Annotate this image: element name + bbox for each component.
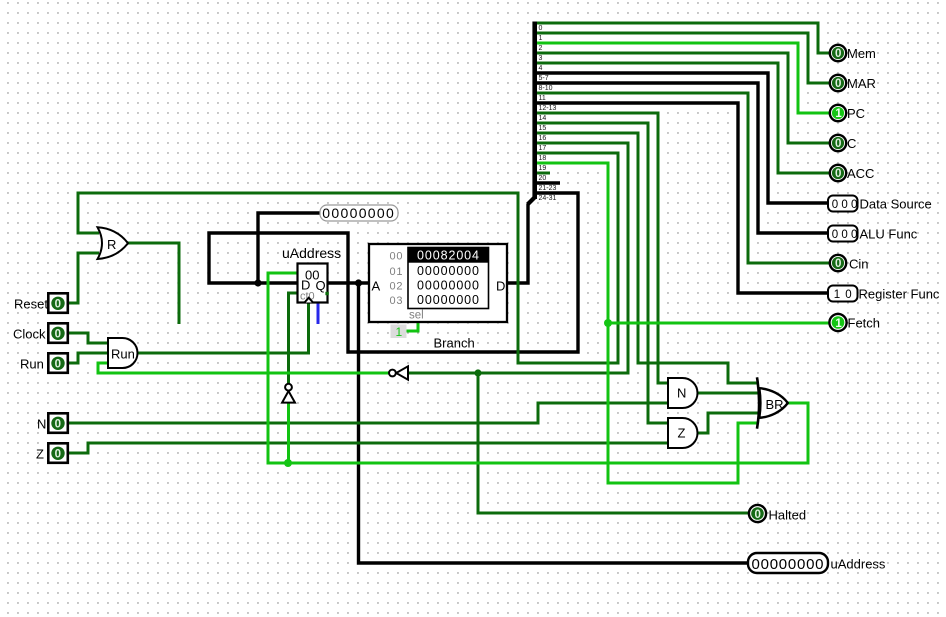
and-gate Run (clock gating)	[108, 338, 138, 368]
label Mem	[847, 46, 876, 61]
svg-text:R: R	[107, 237, 116, 252]
svg-text:sel: sel	[409, 310, 424, 322]
svg-text:0: 0	[55, 359, 61, 371]
svg-text:00000000: 00000000	[417, 278, 479, 292]
input pin Z	[48, 443, 68, 463]
label Data Source	[860, 197, 932, 212]
wire bus bits8-10 to ALU Func	[535, 83, 828, 233]
register label uAddress	[282, 245, 341, 261]
svg-text:A: A	[372, 279, 381, 294]
output LED Halted	[749, 505, 766, 522]
wire bit15 to gate Z top input	[535, 123, 668, 423]
svg-text:20: 20	[539, 175, 547, 182]
svg-text:uAddress: uAddress	[282, 245, 341, 261]
wire bus bits12-13 to Register Func	[535, 103, 828, 293]
svg-text:Branch: Branch	[434, 336, 475, 351]
svg-text:4: 4	[539, 65, 543, 72]
svg-text:Reset: Reset	[14, 297, 48, 312]
svg-text:0: 0	[835, 48, 841, 60]
svg-text:0: 0	[835, 168, 841, 180]
svg-text:Cin: Cin	[849, 257, 869, 272]
ROM address labels	[390, 251, 403, 307]
wire constant 1 to ROM sel	[404, 322, 418, 331]
svg-text:Q: Q	[316, 278, 326, 293]
output LED ACC	[830, 165, 846, 181]
svg-text:D: D	[496, 279, 505, 294]
svg-text:5-7: 5-7	[539, 75, 549, 82]
splitter SPL1 bit labels	[539, 25, 557, 202]
wire bit19 Fetch net	[535, 163, 758, 483]
wire Fetch net branch to Fetch LED	[608, 322, 830, 325]
svg-text:Z: Z	[36, 447, 44, 462]
input pin Run	[48, 353, 68, 373]
svg-text:00082004: 00082004	[417, 249, 479, 263]
probe 00000000 (uAddress.D view)	[320, 205, 398, 221]
wire bus Q-net to uAddress output pin	[359, 283, 749, 563]
output LED Cin	[830, 255, 846, 271]
wire bus bits5-7 to Data Source	[535, 73, 828, 203]
ROM Branch body	[369, 244, 507, 322]
svg-text:14: 14	[539, 115, 547, 122]
label ACC	[847, 166, 874, 181]
svg-text:1: 1	[396, 325, 403, 339]
svg-text:Fetch: Fetch	[848, 316, 881, 331]
output pin Register Func (2-bit, value 10)	[828, 286, 858, 302]
label Z	[36, 447, 44, 462]
wire gate Run output to register clock wedge	[138, 303, 309, 353]
output LED MAR	[830, 75, 846, 91]
wire inverter U2 net branch to Halted	[478, 373, 748, 513]
svg-text:1: 1	[835, 318, 842, 330]
svg-text:18: 18	[539, 155, 547, 162]
wire gate BR output to register enable	[268, 273, 808, 463]
wire stub bit20	[535, 172, 550, 175]
junction on Q-net	[355, 279, 362, 286]
and-gate N	[668, 378, 698, 408]
wire Clock pin to gate Run input 1	[68, 333, 108, 343]
output LED Fetch (value 1)	[829, 314, 846, 331]
register uAddress	[298, 264, 329, 303]
wire bit1 to MAR	[535, 33, 830, 83]
label Run	[20, 357, 44, 372]
label Halted	[769, 508, 807, 523]
label Fetch	[848, 316, 881, 331]
svg-text:Run: Run	[20, 357, 44, 372]
wire bit14 to gate N top input	[535, 113, 668, 383]
junction on D-net at probe tap	[254, 279, 261, 286]
svg-text:Z: Z	[678, 426, 686, 441]
svg-text:0: 0	[835, 138, 841, 150]
svg-text:0: 0	[835, 78, 841, 90]
wire bit2 to PC (value 1)	[535, 43, 830, 113]
svg-text:BR: BR	[766, 397, 784, 412]
label uAddress (bottom)	[831, 557, 886, 572]
constant 1 (sel)	[391, 325, 407, 339]
svg-text:00000000: 00000000	[417, 293, 479, 307]
wire bit0 to Mem	[535, 23, 830, 53]
svg-text:0: 0	[55, 449, 61, 461]
svg-text:ALU Func: ALU Func	[860, 227, 918, 242]
output pin uAddress (bottom)	[748, 553, 828, 573]
wire bus bits24-31 to register D input (D-net)	[209, 193, 578, 352]
svg-text:Mem: Mem	[847, 46, 876, 61]
output LED Mem	[830, 45, 846, 61]
label N	[37, 417, 46, 432]
and-gate Z	[668, 418, 698, 448]
wire inverter U3 output to register clock west pin	[289, 293, 298, 383]
junction on Fetch net	[604, 319, 612, 327]
wire bit16 to gate BR top input	[535, 133, 758, 383]
svg-text:1: 1	[539, 35, 543, 42]
svg-text:00000000: 00000000	[752, 556, 826, 573]
svg-text:1: 1	[835, 108, 842, 120]
svg-text:00000000: 00000000	[417, 264, 479, 278]
wire N pin to gate N lower input	[68, 403, 668, 423]
output LED PC (value 1)	[830, 105, 846, 121]
wire bit17 to inverter U2 input	[408, 143, 628, 373]
wire bus splitter origin to ROM D output	[508, 204, 528, 283]
ROM Branch label	[434, 336, 475, 351]
wire gate Z output to gate BR input	[698, 413, 758, 433]
svg-text:0: 0	[55, 299, 61, 311]
label MAR	[847, 76, 876, 91]
output pin Data Source (3-bit)	[828, 196, 861, 212]
wire floating register south pin (blue)	[317, 303, 320, 324]
junction on inverter U2 input net	[474, 369, 481, 376]
or-gate BR	[757, 377, 788, 428]
svg-text:02: 02	[390, 280, 403, 292]
svg-text:uAddress: uAddress	[831, 557, 886, 572]
svg-text:ACC: ACC	[847, 166, 874, 181]
wire Z pin to gate Z lower input	[68, 443, 668, 453]
wire bit3 to C	[535, 53, 830, 143]
svg-text:000: 000	[832, 199, 861, 211]
output pin ALU Func (3-bit)	[828, 226, 861, 242]
svg-text:03: 03	[390, 295, 403, 307]
wire Run pin to gate Run input 2	[68, 353, 108, 363]
svg-text:12-13: 12-13	[539, 105, 557, 112]
svg-text:3: 3	[539, 55, 543, 62]
svg-text:PC: PC	[847, 106, 865, 121]
svg-text:11: 11	[539, 95, 546, 102]
svg-text:MAR: MAR	[847, 76, 876, 91]
wire inverter U2 output to gate Run input 3	[98, 363, 389, 373]
svg-text:24-31: 24-31	[539, 195, 557, 202]
input pin Reset	[48, 293, 68, 313]
wire gate R output dangling	[128, 243, 179, 324]
wire bit11 to Cin	[535, 93, 830, 263]
label Cin	[849, 257, 869, 272]
input pin N	[48, 413, 68, 433]
svg-text:17: 17	[539, 145, 547, 152]
wire bus probe tap from D-net to probe	[258, 213, 321, 283]
output LED C	[830, 135, 846, 151]
ROM contents table	[408, 248, 489, 309]
svg-text:000: 000	[832, 229, 861, 241]
svg-text:15: 15	[539, 125, 547, 132]
svg-text:2: 2	[539, 45, 543, 52]
svg-text:Data Source: Data Source	[860, 197, 932, 212]
label Clock	[13, 327, 46, 342]
label PC	[847, 106, 865, 121]
label Reset	[14, 297, 48, 312]
wire Reset pin to gate R lower input	[68, 253, 99, 303]
input pin Clock	[48, 323, 68, 343]
wire gate N output to gate BR input	[698, 392, 758, 395]
svg-text:0: 0	[835, 258, 841, 270]
junction on enable net	[284, 459, 292, 467]
svg-text:Register Func: Register Func	[859, 287, 940, 302]
splitter SPL1 spine	[528, 22, 535, 205]
inverter U2 (points left)	[389, 366, 408, 379]
svg-text:Clock: Clock	[13, 327, 46, 342]
or-gate R	[98, 227, 129, 259]
svg-text:19: 19	[539, 165, 547, 172]
svg-text:10: 10	[834, 289, 857, 301]
wire bus stub bits21-23	[535, 181, 560, 184]
wire bus register Q to ROM A input	[328, 281, 368, 284]
svg-text:01: 01	[390, 266, 403, 278]
svg-text:N: N	[37, 417, 46, 432]
svg-text:Halted: Halted	[769, 508, 807, 523]
svg-text:00000000: 00000000	[322, 205, 396, 221]
label ALU Func	[860, 227, 918, 242]
svg-text:00: 00	[390, 251, 403, 263]
svg-text:0: 0	[539, 25, 543, 32]
svg-text:Run: Run	[111, 347, 135, 362]
wire bit18 to gate R top input	[78, 153, 618, 363]
svg-text:0: 0	[755, 509, 761, 521]
svg-text:0: 0	[55, 329, 61, 341]
svg-text:8-10: 8-10	[539, 85, 553, 92]
svg-text:0: 0	[55, 419, 61, 431]
svg-text:16: 16	[539, 135, 547, 142]
svg-text:C: C	[847, 136, 856, 151]
svg-text:N: N	[677, 386, 686, 401]
label Register Func	[859, 287, 940, 302]
label C	[847, 136, 856, 151]
inverter U3 (points up)	[282, 384, 295, 403]
wire inverter U3 input from enable net	[287, 403, 290, 463]
wire bit4 to ACC	[535, 63, 830, 173]
svg-text:21-23: 21-23	[539, 185, 557, 192]
